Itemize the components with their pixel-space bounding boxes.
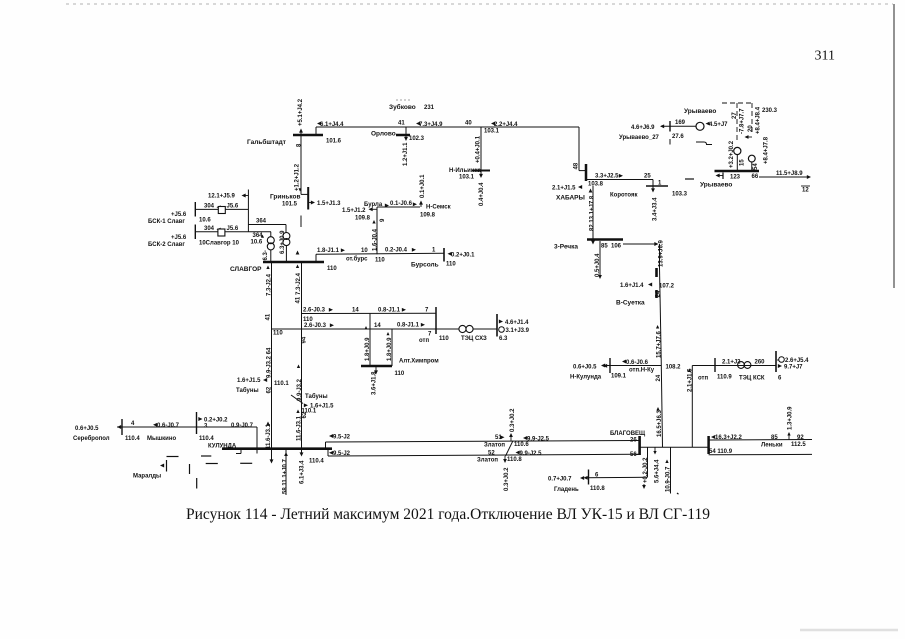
svg-text:3-Речка: 3-Речка <box>554 244 578 251</box>
bus tick БСК-2 <box>194 225 196 240</box>
svg-text:58 11.1+J0.7: 58 11.1+J0.7 <box>283 458 289 494</box>
svg-text:Урываево_27: Урываево_27 <box>619 135 660 141</box>
label Гладень <box>554 487 579 493</box>
switch hook <box>696 142 712 145</box>
svg-text:110: 110 <box>395 371 405 377</box>
breaker circle 1 <box>734 147 741 170</box>
svg-text:Табуны: Табуны <box>305 393 328 400</box>
svg-text:85: 85 <box>771 435 778 441</box>
label 9.9-J3.2 64 (rotated) A <box>267 347 273 378</box>
svg-text:БЛАГОВЕЩ: БЛАГОВЕЩ <box>610 431 646 437</box>
wire: Маралды dash <box>201 455 211 457</box>
wire: dashed top h <box>722 102 752 104</box>
label 41 (rotated) A <box>266 313 272 320</box>
label ТЭЦ КСК <box>739 376 765 382</box>
label +J5.6 (1) <box>171 212 187 218</box>
svg-text:Орлово: Орлово <box>371 131 396 138</box>
svg-text:101.5: 101.5 <box>282 202 298 208</box>
label 13.9+J6.9 (rotated) <box>659 239 665 267</box>
svg-text:27: 27 <box>732 112 738 119</box>
label Н-Кулунда <box>570 375 602 381</box>
label 7 (line1) <box>425 308 429 314</box>
svg-text:62: 62 <box>267 386 273 393</box>
page number 311 <box>815 49 835 64</box>
wire: Бурла left stub <box>369 207 378 211</box>
svg-text:2.1+J1.5: 2.1+J1.5 <box>552 186 576 192</box>
label 101.5 <box>282 202 298 208</box>
label 2.1+J1.5 (rotated) <box>688 368 694 392</box>
svg-text:10Славгор 10: 10Славгор 10 <box>199 241 240 247</box>
label 102.3 <box>409 136 425 142</box>
wire: drop to Орлово bus <box>404 127 408 141</box>
svg-text:82 13.1+J7.8: 82 13.1+J7.8 <box>590 195 596 231</box>
label 101.6 <box>326 139 342 145</box>
wire: line1 <box>302 312 437 314</box>
svg-text:11.6-J3.1: 11.6-J3.1 <box>297 415 303 441</box>
arrow down Златоп <box>503 456 507 463</box>
label Гальбштадт <box>247 138 286 146</box>
label Табуны A <box>236 387 259 394</box>
svg-text:107.2: 107.2 <box>659 284 675 290</box>
label 1.8+J0.9 (rotated) a <box>365 326 371 361</box>
svg-text:Табуны: Табуны <box>236 387 259 394</box>
slash Златоп <box>506 441 514 456</box>
label 24 (rotated) <box>656 290 662 297</box>
label 12 with overline <box>801 186 810 194</box>
bus ТЭЦ КСК <box>775 351 777 372</box>
bus tick БСК-1 <box>194 202 196 217</box>
svg-text:1.6+J1.4: 1.6+J1.4 <box>620 283 644 289</box>
scan smudge above Зубково <box>396 99 412 101</box>
svg-text:4.5+J7: 4.5+J7 <box>709 122 728 128</box>
wire: twin line upper <box>326 441 640 443</box>
svg-text:4.6+J6.9: 4.6+J6.9 <box>631 125 655 131</box>
label 0.6-J0.7 with arrow <box>153 423 180 429</box>
svg-text:0.4+J0.4: 0.4+J0.4 <box>479 182 485 206</box>
wire: dashed v1 <box>736 103 738 141</box>
svg-text:0.9-J0.7: 0.9-J0.7 <box>231 423 254 429</box>
wire: ХАБАРЫ to 3-Речка <box>591 186 595 245</box>
label 82 13.1+J7.8 (rotated) <box>590 195 596 231</box>
svg-text:54 110.9: 54 110.9 <box>709 449 733 455</box>
svg-text:2.6-J0.3: 2.6-J0.3 <box>304 323 327 329</box>
label Коротояк <box>610 193 637 199</box>
label 110.9 <box>717 375 732 381</box>
label 54 (rotated) <box>753 163 759 170</box>
svg-text:0.2+J0.2: 0.2+J0.2 <box>204 418 228 424</box>
svg-text:15.7+J7.6: 15.7+J7.6 <box>657 330 663 358</box>
label 103.1 <box>484 129 500 135</box>
label 0.2-J0.4 with arrow <box>385 248 416 254</box>
svg-text:0.3+J0.2: 0.3+J0.2 <box>504 467 510 491</box>
svg-text:10: 10 <box>361 248 368 254</box>
label 0.7+J0.7 with arrow <box>548 476 584 482</box>
svg-text:3.6+J1.8: 3.6+J1.8 <box>371 371 377 395</box>
svg-text:+8.4+J8.4: +8.4+J8.4 <box>755 106 761 134</box>
svg-text:110.8: 110.8 <box>590 486 605 492</box>
wire: line Серебропол-Мышкино-КУЛУНДА <box>117 426 257 428</box>
svg-text:СЛАВГОР: СЛАВГОР <box>230 266 262 273</box>
svg-text:41: 41 <box>398 121 405 127</box>
arrow+label 5.6+J4.4 <box>653 447 660 483</box>
label 1.8-J1.1 with arrow <box>317 248 345 254</box>
svg-text:9.9-J3.2: 9.9-J3.2 <box>297 378 303 401</box>
wire: line to ТЭЦ КСК <box>692 365 776 367</box>
bus tick отп <box>714 358 716 372</box>
label 6.1+J4.4 with arrow <box>317 122 344 128</box>
label 110.8 <box>507 457 522 463</box>
label ХАБАРЫ <box>556 195 585 202</box>
label 107.2 <box>659 284 675 290</box>
label 0.1+J0.1 (rotated) <box>420 174 426 198</box>
label 108.2 <box>666 365 682 371</box>
bus Гриньков (vertical) <box>307 187 309 210</box>
arrow БСК-2 <box>217 228 221 232</box>
svg-text:0.8-J1.1: 0.8-J1.1 <box>378 308 401 314</box>
label 0.4+J0.4 (rotated) <box>479 182 485 206</box>
label 110.4 <box>309 459 324 465</box>
label 3.1+J3.9 <box>506 328 530 334</box>
wire: stub up from Гальбштадт with arrow <box>299 129 303 136</box>
label 103.3 <box>672 192 688 198</box>
bus Леньки <box>707 436 710 454</box>
wire: step Гальбштадт to main line <box>315 127 317 135</box>
wire: line2 west <box>272 328 460 330</box>
wire: БЛАГОВЕЩ junction line <box>640 446 709 448</box>
label 6 <box>595 473 599 479</box>
svg-text:3.4+J3.4: 3.4+J3.4 <box>653 197 659 221</box>
svg-text:11.5+J8.9: 11.5+J8.9 <box>776 171 803 177</box>
label отп (line2) <box>419 338 429 344</box>
label 9.5-J2 upper with arrow <box>329 434 351 440</box>
svg-text:В-Суетка: В-Суетка <box>616 300 645 307</box>
svg-text:110: 110 <box>439 336 449 342</box>
wire: main line Гальбштадт–Орлово–corner <box>316 126 579 128</box>
svg-text:0.6-J0.6: 0.6-J0.6 <box>626 360 649 366</box>
svg-text:Зубково: Зубково <box>389 103 416 111</box>
svg-text:от.бурс: от.бурс <box>346 256 368 263</box>
svg-text:+J5.6: +J5.6 <box>171 235 187 241</box>
svg-text:110.1: 110.1 <box>274 381 289 387</box>
label 3.6+J1.8 (rotated) <box>371 371 377 395</box>
label 110 (line1) <box>303 317 313 323</box>
svg-text:9.5-J2: 9.5-J2 <box>333 435 351 441</box>
label 2.2+J4.4 with arrow <box>491 122 518 128</box>
label 0.9-J0.7 <box>231 423 254 429</box>
svg-text:J5.6: J5.6 <box>227 204 239 210</box>
label 0.5+J0.4 (rotated) <box>595 253 601 277</box>
svg-text:0.6+J0.5: 0.6+J0.5 <box>75 426 99 432</box>
svg-text:Бурсоль: Бурсоль <box>411 262 439 269</box>
label Гриньков <box>270 194 300 201</box>
label 62 (rotated) A <box>267 386 273 393</box>
label от.бурс <box>346 256 368 263</box>
label +3.2+J0.2 (rotated) <box>729 140 735 168</box>
label 1.6+J1.5 B with arrow <box>304 403 334 409</box>
svg-text:24: 24 <box>656 290 662 297</box>
label 110 (line2 west) <box>273 331 283 337</box>
svg-text:J5.6: J5.6 <box>227 226 239 232</box>
label 1.5+J1.2 <box>342 208 366 214</box>
label 103.8 <box>588 182 604 188</box>
label -7.8+J7.7 (rotated) <box>739 108 745 134</box>
svg-text:109.8: 109.8 <box>355 216 371 222</box>
label 20 (rotated) <box>748 125 754 132</box>
bus ХАБАРЫ (vertical) <box>585 164 588 181</box>
svg-text:ТЭЦ КСК: ТЭЦ КСК <box>739 376 765 382</box>
label 15 (rotated) <box>739 159 745 166</box>
svg-text:1.2+J1.1: 1.2+J1.1 <box>403 142 409 166</box>
svg-text:364: 364 <box>256 219 267 225</box>
svg-text:1.5+J1.2: 1.5+J1.2 <box>342 208 366 214</box>
wire: trunk В-Суетка to отп.Н-Ку <box>660 310 661 366</box>
svg-text:5.6+J4.4: 5.6+J4.4 <box>654 459 660 483</box>
label 1 <box>658 181 662 187</box>
label Бурла with arrow <box>364 202 389 208</box>
label 41 <box>398 121 405 127</box>
wire: 3-Речка load stub <box>598 241 602 279</box>
bus Алт.Химпром <box>361 365 392 368</box>
svg-text:1.3+J0.9: 1.3+J0.9 <box>788 406 794 430</box>
label 10 <box>361 248 368 254</box>
svg-text:1.6-J0.4: 1.6-J0.4 <box>373 228 379 251</box>
label 110 (b) <box>327 266 337 272</box>
svg-text:112.5: 112.5 <box>791 442 806 448</box>
label 12.1+J5.9 with arrow <box>208 194 248 200</box>
label 3-Речка <box>554 244 578 251</box>
wire: Маралды dash <box>240 462 252 464</box>
label 25 <box>644 174 651 180</box>
label 103.1 <box>459 175 475 181</box>
wire: Леньки lower line <box>709 453 812 455</box>
label 66 <box>752 174 759 180</box>
label БСК-1 Славг <box>148 219 185 225</box>
svg-text:110.8: 110.8 <box>507 457 522 463</box>
caption figure 114 <box>186 506 710 523</box>
wire: vertical B СЛАВГОР-КУЛУНДА <box>301 262 303 449</box>
transformer ТЭЦ КСК <box>738 362 751 369</box>
label Златоп lower <box>477 458 498 464</box>
label Бурсоль <box>411 262 439 269</box>
label +0.4+J0.1 (rotated) <box>476 135 482 163</box>
wire: trunk Гальбштадт-Гриньков <box>301 135 308 194</box>
svg-text:0.2-J0.4: 0.2-J0.4 <box>385 248 408 254</box>
label 10.9-J0.7 (rotated) <box>665 460 671 493</box>
label 2.1+J2 <box>722 360 741 366</box>
label 56 <box>630 452 637 458</box>
svg-text:2.2+J4.4: 2.2+J4.4 <box>494 122 518 128</box>
svg-text:0.2+J0.1: 0.2+J0.1 <box>451 253 475 259</box>
wire: dashed stub below Гриньков <box>300 216 302 228</box>
label 27 (rotated) <box>732 112 738 119</box>
label Златоп upper <box>484 443 505 449</box>
svg-text:41: 41 <box>296 296 302 303</box>
wire: от.бурс step <box>315 254 317 262</box>
wire: Маралды dash <box>206 463 218 465</box>
generator symbol ТЭЦ СХЗ <box>499 327 505 333</box>
wire: line to Н-Кулунда <box>601 364 661 368</box>
svg-text:12.1+J5.9: 12.1+J5.9 <box>208 194 236 200</box>
label Маралды <box>133 474 161 480</box>
label ТЭЦ СХЗ <box>461 336 487 342</box>
svg-text:9.9-J2.5: 9.9-J2.5 <box>520 451 543 457</box>
scan artifact: bottom-right smudge <box>800 629 898 632</box>
svg-text:0.1-J0.6: 0.1-J0.6 <box>390 201 413 207</box>
capacitor box БСК-1 <box>218 207 225 214</box>
label 9.7+J7 with arrow <box>778 364 803 370</box>
wire: drop to КУЛУНДА bus <box>256 427 258 454</box>
label отп.Н-Ку <box>629 368 655 374</box>
label 3.3+J2.5 with arrow <box>595 174 623 180</box>
svg-text:9.7+J7: 9.7+J7 <box>784 365 803 371</box>
arrow+tick Маралды <box>160 460 167 472</box>
label 0.6+J0.5 with arrow <box>75 425 121 432</box>
label J5.6 БСК-2 <box>227 226 239 232</box>
label 364+ arrow <box>253 233 265 239</box>
svg-text:1.8+J0.9: 1.8+J0.9 <box>365 337 371 361</box>
label 11.6-J3.1 (rotated) B <box>296 410 302 442</box>
label Урываево top <box>684 108 716 115</box>
svg-text:103.1: 103.1 <box>484 129 500 135</box>
label 9.9-J3.2 (rotated) B <box>297 365 303 402</box>
svg-text:110: 110 <box>375 258 385 264</box>
bus ТЭЦ СХЗ <box>496 314 498 337</box>
label СЛАВГОР <box>230 266 262 273</box>
label Мышкино <box>147 436 176 442</box>
bus tick Н-Кулунда side <box>609 358 611 373</box>
svg-text:+0.2-J0.2: +0.2-J0.2 <box>643 457 649 483</box>
svg-text:0.6-J0.7: 0.6-J0.7 <box>157 423 180 429</box>
svg-text:БСК-2 Славг: БСК-2 Славг <box>148 242 185 248</box>
svg-text:110.4: 110.4 <box>309 459 324 465</box>
svg-text:109.1: 109.1 <box>611 374 627 380</box>
label 15.7+J7.6 (rotated) <box>656 325 663 358</box>
label J5.6 БСК-1 <box>227 204 239 210</box>
svg-text:13.9+J6.9: 13.9+J6.9 <box>659 239 665 267</box>
svg-text:6.3: 6.3 <box>499 336 508 342</box>
label Табуны B <box>305 393 328 400</box>
svg-text:15: 15 <box>739 159 745 166</box>
label 9.5-J2 lower with arrow <box>329 451 351 457</box>
label 110.6 <box>514 442 529 448</box>
svg-text:62: 62 <box>302 411 308 418</box>
wire: Гладень drop <box>584 447 648 479</box>
svg-text:Коротояк: Коротояк <box>610 193 637 199</box>
wire: от.бурс line <box>316 253 444 254</box>
tap Табуны B slash <box>291 395 303 404</box>
wire: drop line1 to Алт.Химпром <box>369 314 371 367</box>
label 85 <box>771 435 778 441</box>
bus tick Бурсоль <box>443 248 445 262</box>
label 14 (line2) <box>374 323 381 329</box>
breaker circle Урываево_27 <box>696 122 704 130</box>
svg-text:48: 48 <box>574 162 580 169</box>
label 8 (rotated) <box>297 143 303 147</box>
svg-text:103.3: 103.3 <box>672 192 688 198</box>
svg-text:Урываево: Урываево <box>700 182 732 189</box>
svg-text:6.3-: 6.3- <box>263 250 269 260</box>
label 109.8 left <box>355 216 371 222</box>
capacitor box БСК-2 <box>218 229 225 236</box>
svg-text:25: 25 <box>644 174 651 180</box>
svg-text:Леньки: Леньки <box>761 443 783 449</box>
svg-text:7.3+J4.9: 7.3+J4.9 <box>419 122 443 128</box>
svg-text:Мышкино: Мышкино <box>147 436 176 442</box>
svg-text:+1.2+J1.2: +1.2+J1.2 <box>295 163 301 191</box>
wire: drop line2 to Алт.Химпром <box>391 329 393 366</box>
svg-text:10.6: 10.6 <box>199 218 211 224</box>
bus 3-Речка <box>587 238 623 241</box>
wire: stub below tick <box>669 139 671 145</box>
label БЛАГОВЕЩ <box>610 431 646 437</box>
wire: trunk to БЛАГОВЕЩ junction <box>661 366 662 448</box>
svg-text:12: 12 <box>802 188 809 194</box>
arrow БСК-1 <box>217 205 221 209</box>
svg-text:56: 56 <box>630 452 637 458</box>
svg-text:52: 52 <box>488 451 495 457</box>
label 110.8 <box>590 486 605 492</box>
svg-text:отп.Н-Ку: отп.Н-Ку <box>629 368 655 374</box>
wire: line east 11.5+J8.9 <box>759 175 811 179</box>
label 0.6-J0.6 with arrow <box>622 360 649 366</box>
label 109.1 <box>611 374 627 380</box>
label 7 (line2) <box>428 332 432 338</box>
svg-text:108.2: 108.2 <box>666 365 682 371</box>
svg-text:110.4: 110.4 <box>125 436 140 442</box>
label 92 <box>797 435 804 441</box>
label 11.6-J3.1 (rotated) A <box>266 422 272 450</box>
label 94 (rotated) B <box>302 336 308 343</box>
svg-text:2.6-J0.3: 2.6-J0.3 <box>303 308 326 314</box>
svg-text:110: 110 <box>446 262 456 268</box>
bus tick Гладень <box>588 470 590 485</box>
label 9.9-J2.5 lower with arrow <box>516 451 543 457</box>
svg-text:Златоп: Златоп <box>484 443 505 449</box>
svg-text:364: 364 <box>253 233 264 239</box>
label 11.5+J8.9 <box>776 171 803 177</box>
label 62 (rotated) B <box>302 411 308 418</box>
wire: B below bus with arrow <box>300 449 304 457</box>
bus Гальбштадт <box>293 134 323 137</box>
label 0.8-J1.1 with arrow (1) <box>378 308 406 314</box>
label 6 <box>778 376 782 382</box>
svg-text:Н-Ильинка: Н-Ильинка <box>449 168 481 174</box>
svg-text:отп: отп <box>419 338 429 344</box>
svg-text:85 106: 85 106 <box>601 244 622 250</box>
wire: line to breaker <box>660 124 696 128</box>
bus Урываево <box>715 170 760 173</box>
svg-text:16.5+J6.3: 16.5+J6.3 <box>657 409 663 437</box>
wire: trunk through В-Суетка <box>659 268 662 310</box>
label 6.1+J3.4 (rotated) B <box>300 460 306 484</box>
bus КУЛУНДА <box>222 447 332 450</box>
scan artifact: right edge line <box>893 4 895 288</box>
svg-text:41: 41 <box>266 313 272 320</box>
svg-text:40: 40 <box>465 121 472 127</box>
arrow up Златоп <box>509 433 513 441</box>
svg-text:110.6: 110.6 <box>514 442 529 448</box>
svg-text:123: 123 <box>730 175 741 181</box>
label 58 11.1+J0.7 (rotated) <box>283 458 289 494</box>
label +1.2+J1.2 (rotated) <box>295 163 302 191</box>
svg-text:0.5+J0.4: 0.5+J0.4 <box>595 253 601 277</box>
generator symbol ТЭЦ КСК <box>777 357 784 363</box>
wire: Маралды v-dash <box>189 464 191 474</box>
svg-text:Алт.Химпром: Алт.Химпром <box>399 359 439 365</box>
svg-text:11.6-J3.1: 11.6-J3.1 <box>266 423 272 449</box>
svg-text:169: 169 <box>675 120 686 126</box>
label 1 <box>432 248 436 254</box>
